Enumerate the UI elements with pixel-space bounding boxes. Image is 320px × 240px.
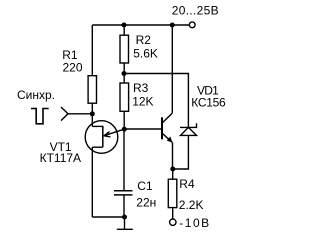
junction dot R2 top: [122, 23, 127, 28]
junction dot R2/R3: [122, 71, 127, 76]
wire C1 bottom lead: [123, 195, 125, 217]
wire R1 bottom lead: [91, 103, 93, 126]
input chevron: [61, 107, 68, 121]
transistor VT1 circle: [85, 121, 118, 154]
wire R2-R3: [123, 63, 125, 83]
wire base: [125, 128, 162, 130]
capacitor C1 bottom plate: [114, 194, 133, 196]
resistor R2: [120, 35, 129, 63]
wire R4 bottom lead: [172, 208, 174, 219]
junction dot collector rail: [170, 23, 175, 28]
resistor R4: [168, 179, 177, 207]
terminal -10V: [170, 219, 176, 225]
ground bar: [117, 228, 133, 230]
svg-text:20...25В: 20...25В: [172, 4, 219, 18]
junction dot R4 top: [170, 167, 175, 172]
transistor Q emitter arrowhead: [167, 137, 173, 143]
wire sync input: [68, 113, 92, 115]
wire VD1 anode down to R4 node: [173, 135, 189, 169]
transistor VT1 base bar: [102, 126, 104, 147]
junction dot emitter node: [122, 127, 127, 132]
terminal 20...25V: [189, 22, 195, 28]
svg-text:R2: R2: [136, 33, 152, 47]
transistor Q base bar: [161, 117, 163, 139]
zener VD1 cathode bar: [180, 123, 197, 127]
wire top rail: [92, 24, 189, 26]
svg-text:КС156: КС156: [191, 95, 226, 109]
transistor Q emitter slant: [163, 134, 173, 143]
pulse symbol: [31, 109, 49, 124]
svg-text:С1: С1: [137, 179, 153, 193]
wire R1 top lead: [91, 25, 93, 76]
svg-text:22н: 22н: [136, 196, 156, 210]
wire collector rail: [171, 25, 173, 113]
transistor VT1 emitter arrowhead: [104, 132, 110, 137]
wire emitter node down to C1: [123, 129, 125, 191]
resistor R3: [120, 83, 129, 111]
ground stem: [124, 217, 126, 229]
wire emitter down: [172, 143, 174, 169]
wire R2R3 junction to VD1 top: [124, 74, 188, 128]
wire R2 top lead: [123, 25, 125, 35]
capacitor C1 top plate: [114, 190, 133, 192]
svg-text:220: 220: [63, 60, 83, 74]
transistor VT1 B2 arm: [92, 125, 103, 127]
wire R4 top lead: [172, 169, 174, 179]
junction dot ground: [122, 215, 127, 220]
svg-text:R3: R3: [133, 81, 149, 95]
svg-text:R4: R4: [179, 177, 195, 191]
wire R3 bottom lead: [123, 111, 125, 129]
resistor R1: [88, 76, 96, 104]
transistor VT1 B1 lead: [91, 147, 93, 217]
transistor VT1 B1 arm: [92, 146, 103, 148]
transistor Q collector slant: [163, 113, 173, 122]
svg-text:5.6K: 5.6K: [133, 47, 158, 61]
svg-text:12K: 12K: [132, 95, 153, 109]
transistor VT1 emitter line: [104, 129, 125, 136]
svg-text:2.2K: 2.2K: [179, 198, 204, 212]
zener VD1 triangle: [181, 127, 197, 135]
wire bottom rail: [92, 216, 124, 218]
svg-text:-10В: -10В: [179, 216, 210, 230]
svg-text:Синхр.: Синхр.: [17, 88, 55, 102]
svg-text:КТ117А: КТ117А: [40, 151, 81, 165]
junction dot sync node: [90, 111, 95, 116]
